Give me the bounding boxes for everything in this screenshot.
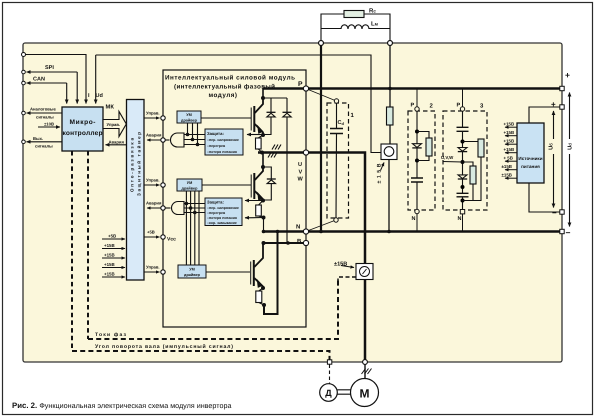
svg-text:SPI: SPI	[45, 65, 54, 71]
svg-text:W: W	[298, 177, 304, 183]
svg-text:драйвер: драйвер	[181, 119, 198, 123]
svg-text:N: N	[296, 224, 300, 231]
svg-text:питания: питания	[521, 164, 540, 169]
svg-text:УМ: УМ	[189, 268, 195, 272]
svg-text:±10В: ±10В	[44, 122, 54, 127]
svg-text:Защита:: Защита:	[207, 131, 224, 136]
svg-text:Авария: Авария	[146, 133, 162, 138]
svg-text:N: N	[412, 216, 416, 222]
svg-text:Управ.: Управ.	[146, 111, 160, 116]
svg-text:Токи фаз: Токи фаз	[95, 332, 127, 338]
svg-text:+15В: +15В	[504, 130, 515, 135]
svg-text:Управ.: Управ.	[107, 122, 121, 127]
svg-text:+15В: +15В	[504, 122, 515, 127]
svg-text:V: V	[299, 170, 303, 176]
svg-text:–перегрев: –перегрев	[207, 144, 226, 148]
svg-text:±15В: ±15В	[502, 173, 512, 178]
svg-text:Д: Д	[325, 388, 332, 398]
svg-text:+15В: +15В	[504, 139, 515, 144]
svg-text:драйвер: драйвер	[182, 187, 199, 191]
svg-text:–перегрев: –перегрев	[207, 211, 226, 215]
svg-text:Защитный таймер: Защитный таймер	[137, 132, 142, 196]
svg-text:Микро-: Микро-	[70, 119, 96, 126]
svg-text:U,V,W: U,V,W	[441, 155, 454, 160]
svg-text:–потеря питания: –потеря питания	[207, 150, 237, 154]
svg-text:+5В: +5В	[147, 230, 155, 235]
svg-text:B: B	[297, 238, 302, 245]
svg-text:МК: МК	[106, 105, 115, 111]
svg-text:(интеллектуальный фазовый: (интеллектуальный фазовый	[174, 84, 275, 91]
svg-text:Интеллектуальный силовой модул: Интеллектуальный силовой модуль	[165, 75, 295, 82]
svg-text:Авария: Авария	[146, 201, 162, 206]
svg-text:+15В: +15В	[504, 147, 515, 152]
svg-text:P: P	[411, 103, 415, 109]
svg-text:–кор. замыкание: –кор. замыкание	[207, 221, 237, 225]
svg-text:драйвер: драйвер	[184, 273, 201, 277]
svg-text:М: М	[360, 387, 370, 401]
svg-text:N: N	[458, 216, 462, 222]
svg-text:модуля): модуля)	[209, 92, 238, 99]
svg-text:Rс: Rс	[369, 8, 376, 15]
svg-text:Lм: Lм	[371, 21, 379, 28]
svg-text:+: +	[565, 70, 570, 80]
svg-text:Вых.: Вых.	[33, 136, 43, 141]
svg-text:–пер. напряжение: –пер. напряжение	[207, 138, 239, 142]
svg-text:сигналы: сигналы	[35, 144, 53, 149]
svg-text:±15В: ±15В	[502, 164, 512, 169]
svg-text:–пер. напряжение: –пер. напряжение	[207, 206, 239, 210]
svg-text:УМ: УМ	[187, 181, 193, 185]
svg-text:+15В: +15В	[104, 272, 115, 277]
svg-text:+15В: +15В	[104, 243, 115, 248]
svg-text:+ 5В: + 5В	[504, 156, 513, 161]
svg-text:УМ: УМ	[186, 113, 192, 117]
svg-text:Аналоговые: Аналоговые	[30, 107, 56, 112]
svg-text:Авария: Авария	[109, 140, 125, 145]
svg-text:Источники: Источники	[518, 156, 542, 161]
svg-text:сигналы: сигналы	[36, 115, 54, 120]
svg-text:±15В: ±15В	[334, 262, 347, 268]
svg-text:−: −	[566, 228, 571, 238]
svg-text:+5В: +5В	[108, 234, 116, 239]
svg-text:+: +	[551, 100, 556, 109]
svg-text:Vcc: Vcc	[167, 237, 176, 243]
svg-text:Cd: Cd	[338, 120, 345, 126]
svg-text:P: P	[457, 103, 461, 109]
svg-text:Ud: Ud	[96, 93, 103, 99]
svg-text:Угол поворота вала (импульсный: Угол поворота вала (импульсный сигнал)	[95, 344, 233, 350]
svg-text:CAN: CAN	[33, 77, 45, 83]
svg-text:Управ.: Управ.	[146, 178, 160, 183]
svg-text:+15В: +15В	[104, 262, 115, 267]
svg-text:U: U	[298, 162, 302, 168]
svg-text:Рис. 2. Функциональная электри: Рис. 2. Функциональная электрическая схе…	[12, 401, 231, 410]
svg-text:−: −	[552, 209, 557, 218]
svg-text:+15В: +15В	[104, 253, 115, 258]
svg-text:Управ.: Управ.	[146, 265, 160, 270]
svg-text:Защита:: Защита:	[207, 200, 224, 205]
svg-text:–потеря питания: –потеря питания	[207, 216, 237, 220]
svg-text:P: P	[298, 81, 303, 88]
svg-text:контроллер: контроллер	[63, 130, 103, 137]
